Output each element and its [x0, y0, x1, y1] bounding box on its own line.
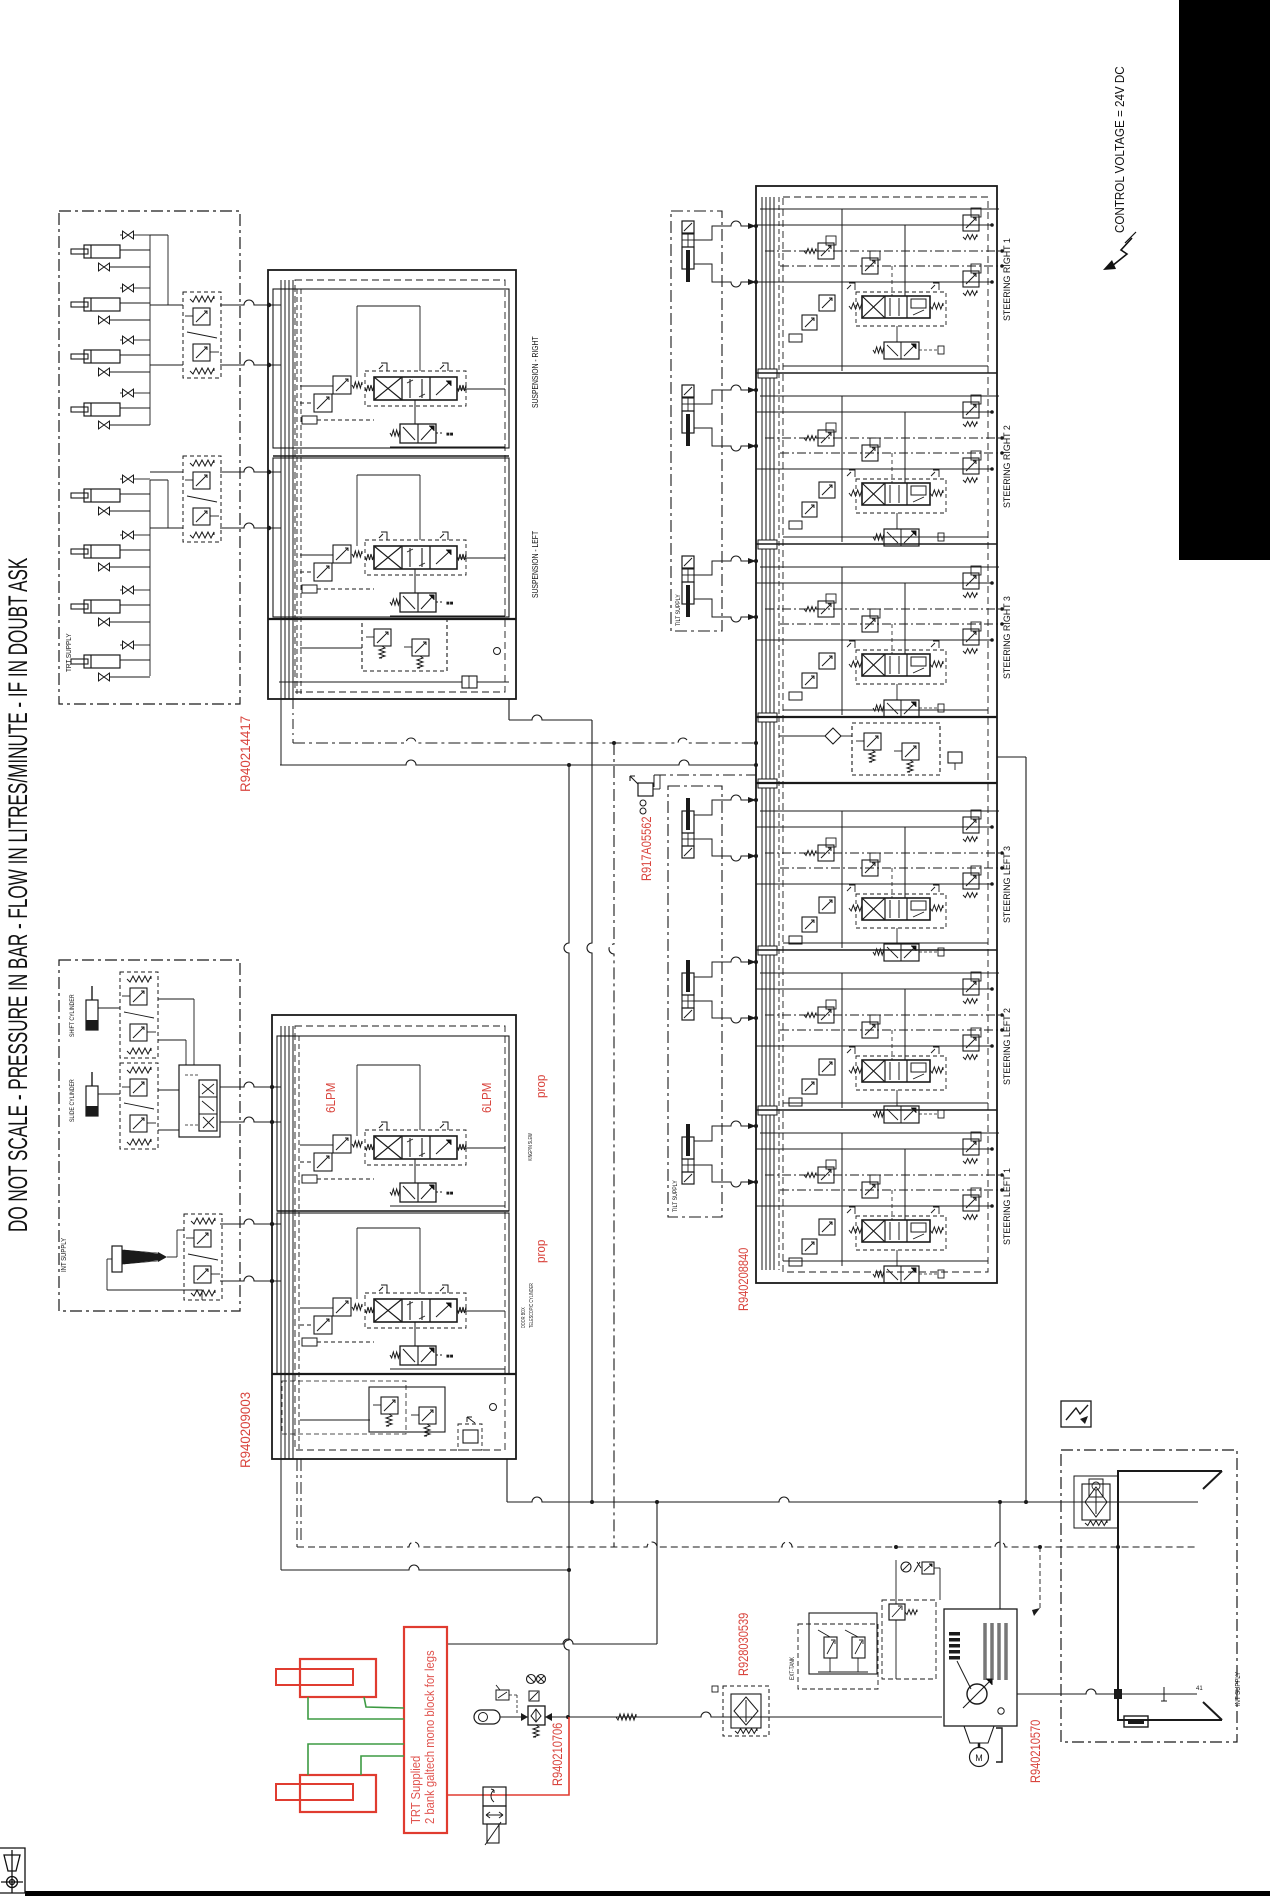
reservoir tank: [1118, 1471, 1222, 1720]
solenoid vent valve R917A05562: [638, 783, 653, 796]
wire bus outrigger group 1: [149, 235, 151, 425]
wire crowd 4: [220, 1276, 281, 1281]
svg-text:M: M: [975, 1753, 983, 1763]
steering divider 6: [756, 1109, 997, 1111]
gauge top: [901, 1562, 911, 1572]
title block black panel: [1179, 0, 1270, 560]
breaker valve block: [184, 1214, 222, 1300]
svg-text:■■: ■■: [446, 1191, 454, 1197]
reservoir box INT SUPPLY: [1061, 1450, 1237, 1742]
svg-text:2 bank galtech mono block for: 2 bank galtech mono block for legs: [422, 1650, 437, 1824]
svg-text:TRT Supplied: TRT Supplied: [408, 1756, 423, 1824]
suspension vent: [494, 648, 501, 655]
wire cylinder A6: [120, 549, 150, 551]
ext tank relief valve 2: [852, 1637, 865, 1658]
cylinder A7: [84, 600, 120, 613]
wire dashdot steering relief: [654, 774, 756, 776]
valve A8b: [99, 673, 110, 681]
drain spring symbol: [616, 1714, 636, 1720]
wire tilt R1: [694, 221, 756, 240]
solenoid vent small box: [496, 1690, 509, 1700]
gauge pair: [527, 1675, 536, 1684]
valve A3b: [99, 368, 110, 376]
wire slide: [98, 1093, 120, 1095]
svg-text:SLIDE CYLINDER: SLIDE CYLINDER: [70, 1079, 77, 1122]
wire tilt L1: [694, 795, 756, 815]
legs return valve: [483, 1787, 506, 1806]
svg-text:6LPM: 6LPM: [479, 1082, 494, 1113]
green hose 1: [364, 1697, 404, 1708]
wire cylinder A3: [120, 354, 150, 356]
red return line: [447, 1717, 569, 1795]
slew manifold inner dashed: [295, 1026, 505, 1450]
svg-text:DOOR BOX: DOOR BOX: [520, 1307, 527, 1328]
svg-text:CONTROL VOLTAGE = 24V DC: CONTROL VOLTAGE = 24V DC: [1113, 66, 1127, 233]
wire suspension tank dash-dot: [292, 699, 294, 743]
tilt cylinder R1: [682, 221, 694, 233]
wire crowd 1: [220, 1082, 281, 1087]
svg-text:6LPM: 6LPM: [323, 1082, 338, 1113]
legs block TRT supplied: [404, 1627, 447, 1833]
steering section STEERING LEFT 2: [760, 972, 999, 974]
cylinder A8: [84, 655, 120, 668]
svg-text:prop: prop: [533, 1074, 548, 1098]
valve A4a: [123, 389, 134, 397]
green hose 3: [308, 1744, 404, 1775]
svg-text:TILT SUPPLY: TILT SUPPLY: [673, 1180, 680, 1212]
pump outlet line: [999, 1502, 1001, 1609]
control voltage lightning symbol: [1112, 238, 1132, 266]
supply line lower: [280, 1459, 282, 1570]
kingpin slew section box: [277, 1036, 509, 1211]
svg-text:R940210570: R940210570: [1028, 1720, 1043, 1783]
svg-text:STEERING RIGHT 2: STEERING RIGHT 2: [1002, 425, 1012, 508]
steering manifold R940208840 outline: [756, 186, 997, 1283]
kingpin slew valve cluster: [333, 1135, 351, 1153]
steering section STEERING LEFT 1: [760, 1132, 999, 1134]
valve A1b: [99, 263, 110, 271]
green hose 4: [361, 1756, 404, 1775]
pilot dashed drop: [1039, 1547, 1041, 1608]
cylinder A6: [84, 545, 120, 558]
valve A6a: [123, 531, 134, 539]
suspension section right box: [273, 289, 509, 448]
crowd supply box INT SUPPLY: [59, 960, 240, 1311]
svg-text:STEERING LEFT 2: STEERING LEFT 2: [1002, 1008, 1012, 1085]
motor bracket: [996, 1728, 1002, 1762]
wire cylinder A7: [120, 604, 150, 606]
ext tank valve box: [809, 1613, 877, 1674]
shift cylinder valve block: [120, 972, 158, 1058]
cylinder A1: [84, 245, 120, 258]
svg-text:STEERING RIGHT 3: STEERING RIGHT 3: [1002, 596, 1012, 679]
wire shift: [98, 1007, 120, 1009]
pump to tank line: [1017, 1689, 1197, 1694]
svg-text:R940214417: R940214417: [238, 716, 253, 792]
slide cylinder: [91, 1072, 93, 1086]
svg-text:TELESCOPIC CYLINDER: TELESCOPIC CYLINDER: [528, 1283, 535, 1328]
slide cylinder valve block: [120, 1063, 158, 1149]
leg cylinder 1: [300, 1659, 376, 1697]
cylinder A4: [84, 403, 120, 416]
steering divider 5: [756, 949, 997, 951]
suspension section left box: [273, 458, 509, 617]
steering divider 4: [756, 782, 997, 784]
power unit box R940210570: [944, 1609, 1017, 1726]
wire LS dash-dot down: [609, 743, 614, 1547]
wire crowd 3: [220, 1219, 281, 1224]
svg-text:EXT-TANK: EXT-TANK: [790, 1657, 797, 1680]
steering section STEERING RIGHT 3: [760, 566, 999, 568]
svg-text:prop: prop: [533, 1239, 548, 1263]
wire to suspension block 4: [220, 523, 281, 528]
steering mid relief valves: [852, 723, 940, 775]
svg-text:STEERING RIGHT 1: STEERING RIGHT 1: [1002, 238, 1012, 321]
pressure filter: [1074, 1476, 1118, 1528]
suspension left valve cluster: [333, 545, 351, 563]
svg-text:TRT SUPPLY: TRT SUPPLY: [66, 633, 74, 672]
svg-text:DO NOT SCALE - PRESSURE IN BAR: DO NOT SCALE - PRESSURE IN BAR - FLOW IN…: [3, 558, 33, 1232]
ext tank relief valve 1: [824, 1637, 837, 1658]
wire suspension pressure: [280, 699, 282, 765]
leg cylinder 2: [300, 1775, 376, 1812]
tilt cylinder L2: [686, 960, 690, 992]
wire tilt L2: [694, 957, 756, 977]
valve A6b: [99, 563, 110, 571]
suspension manifold R940214417 outline: [268, 270, 516, 699]
tilt supply box left: [668, 786, 722, 1217]
wire to suspension block 3: [220, 467, 281, 472]
slew relief divider: [272, 1373, 516, 1375]
valve A4b: [99, 421, 110, 429]
wire cylinder A2: [120, 302, 150, 304]
pump data plate: [949, 1632, 960, 1636]
tilt supply box right: [671, 211, 722, 631]
accumulator: [474, 1710, 500, 1724]
valve A1a: [123, 231, 134, 239]
slew manifold R940209003 outline: [272, 1015, 516, 1459]
pump spec text: [983, 1623, 987, 1680]
valve A7b: [99, 618, 110, 626]
wire suspension to pump P: [508, 699, 510, 720]
green hose 2: [308, 1697, 404, 1719]
slew supply bus lines: [280, 1026, 282, 1459]
tank return dashed line: [297, 1542, 1197, 1547]
telescopic section box: [277, 1213, 509, 1374]
pilot valve box: [882, 1600, 936, 1679]
corner logo: [0, 1848, 25, 1893]
slew drain component: [458, 1424, 482, 1450]
counterbalance block A1: [183, 292, 221, 378]
svg-text:STEERING LEFT 3: STEERING LEFT 3: [1002, 846, 1012, 923]
slew vent: [490, 1404, 497, 1411]
bottom sheet border bar: [25, 1891, 1270, 1896]
steering mid diamond check: [825, 728, 841, 744]
svg-text:R917A05562: R917A05562: [639, 816, 654, 881]
svg-text:R940209003: R940209003: [238, 1392, 253, 1468]
valve A5b: [99, 507, 110, 515]
tilt cylinder R2: [682, 385, 694, 397]
steering bus section ports: [758, 369, 777, 378]
wire steering to tank return: [997, 756, 1026, 758]
wire bus outrigger group 2: [149, 480, 151, 676]
suction strainer: [1124, 1716, 1148, 1727]
wire tilt L3: [694, 1121, 756, 1141]
cylinder A5: [84, 489, 120, 502]
svg-text:INT SUPPLY: INT SUPPLY: [61, 1237, 69, 1272]
telescopic valve cluster: [333, 1298, 351, 1316]
suspension relief divider: [268, 618, 516, 620]
svg-text:R940208840: R940208840: [736, 1248, 751, 1311]
suspension supply bus lines: [280, 280, 282, 699]
svg-text:KINGPIN SLEW: KINGPIN SLEW: [527, 1133, 534, 1161]
counterbalance block A2: [183, 456, 221, 542]
suspension section divider: [273, 455, 509, 457]
pressure reducing valve R940210706: [528, 1706, 545, 1725]
wire to suspension block 1: [220, 300, 281, 305]
svg-text:INT SUPPLY: INT SUPPLY: [1235, 1671, 1243, 1706]
slew section divider: [277, 1210, 509, 1212]
wire cylinder A8: [120, 659, 150, 661]
suspension drain component: [279, 681, 462, 683]
steering drain comp: [948, 752, 962, 763]
svg-text:SUSPENSION - RIGHT: SUSPENSION - RIGHT: [530, 336, 540, 408]
steering divider 3: [756, 716, 997, 718]
pump drive line: [957, 1661, 971, 1689]
tilt cylinder R3: [682, 556, 694, 568]
motor bell: [964, 1726, 994, 1743]
valve A8a: [123, 641, 134, 649]
wire to suspension block 2: [220, 360, 281, 365]
cylinder A2: [84, 298, 120, 311]
wire bus T down: [564, 765, 569, 1717]
wire crowd 2: [220, 1117, 281, 1122]
suction line: [545, 1712, 942, 1717]
svg-text:SHIFT CYLINDER: SHIFT CYLINDER: [70, 994, 77, 1037]
red block feed line: [447, 1639, 657, 1644]
wire cylinder A1: [120, 249, 150, 251]
svg-text:41: 41: [1196, 1686, 1203, 1692]
suspension relief valves: [362, 619, 447, 671]
steering section inner bottoms: [783, 365, 988, 367]
selector valve: [179, 1065, 220, 1137]
steering section STEERING RIGHT 2: [760, 395, 999, 397]
cylinder A3: [84, 350, 120, 363]
suspension right valve cluster: [333, 376, 351, 394]
steering divider 1: [756, 372, 997, 374]
outrigger supply box TRT SUPPLY: [59, 211, 240, 704]
svg-text:STEERING LEFT 1: STEERING LEFT 1: [1002, 1168, 1012, 1245]
svg-text:R940210706: R940210706: [550, 1723, 565, 1786]
valve A5a: [123, 475, 134, 483]
svg-text:SUSPENSION - LEFT: SUSPENSION - LEFT: [530, 530, 540, 598]
svg-text:■■: ■■: [446, 601, 454, 607]
wire tilt R2: [694, 385, 756, 404]
slew bus down dashed: [296, 1459, 298, 1547]
svg-text:■■: ■■: [446, 432, 454, 438]
pump pressure line: [507, 1497, 1198, 1502]
suspension manifold inner dashed: [295, 280, 505, 692]
pump circle: [967, 1684, 987, 1704]
steering section STEERING LEFT 3: [760, 810, 999, 812]
squiggle box symbol: [1061, 1401, 1091, 1427]
breaker tool symbol: [112, 1246, 122, 1272]
tank drain mark: [1160, 1687, 1168, 1701]
wire bus P down: [587, 720, 592, 1502]
valve A2b: [99, 316, 110, 324]
svg-text:TILT SUPPLY: TILT SUPPLY: [676, 594, 683, 626]
tilt cylinder L1: [686, 798, 690, 830]
valve A3a: [123, 336, 134, 344]
slew relief valves: [369, 1387, 445, 1432]
motor M: [970, 1748, 989, 1767]
valve A2a: [123, 284, 134, 292]
shift cylinder: [91, 986, 93, 1000]
steering supply bus lines: [761, 197, 763, 1270]
wire cylinder A5: [120, 493, 150, 495]
wire cylinder A4: [120, 407, 150, 409]
steering divider 2: [756, 543, 997, 545]
steering manifold inner dashed: [783, 197, 988, 1272]
pilot reducing valve: [889, 1604, 905, 1620]
wire breaker to block: [167, 1256, 177, 1258]
svg-text:R928030539: R928030539: [736, 1613, 751, 1676]
valve A7a: [123, 586, 134, 594]
tilt cylinder L3: [686, 1124, 690, 1156]
wire tilt R3: [694, 556, 756, 575]
svg-text:■■: ■■: [446, 1354, 454, 1360]
return filter R928030539: [723, 1686, 769, 1736]
steering section STEERING RIGHT 1: [760, 208, 999, 210]
